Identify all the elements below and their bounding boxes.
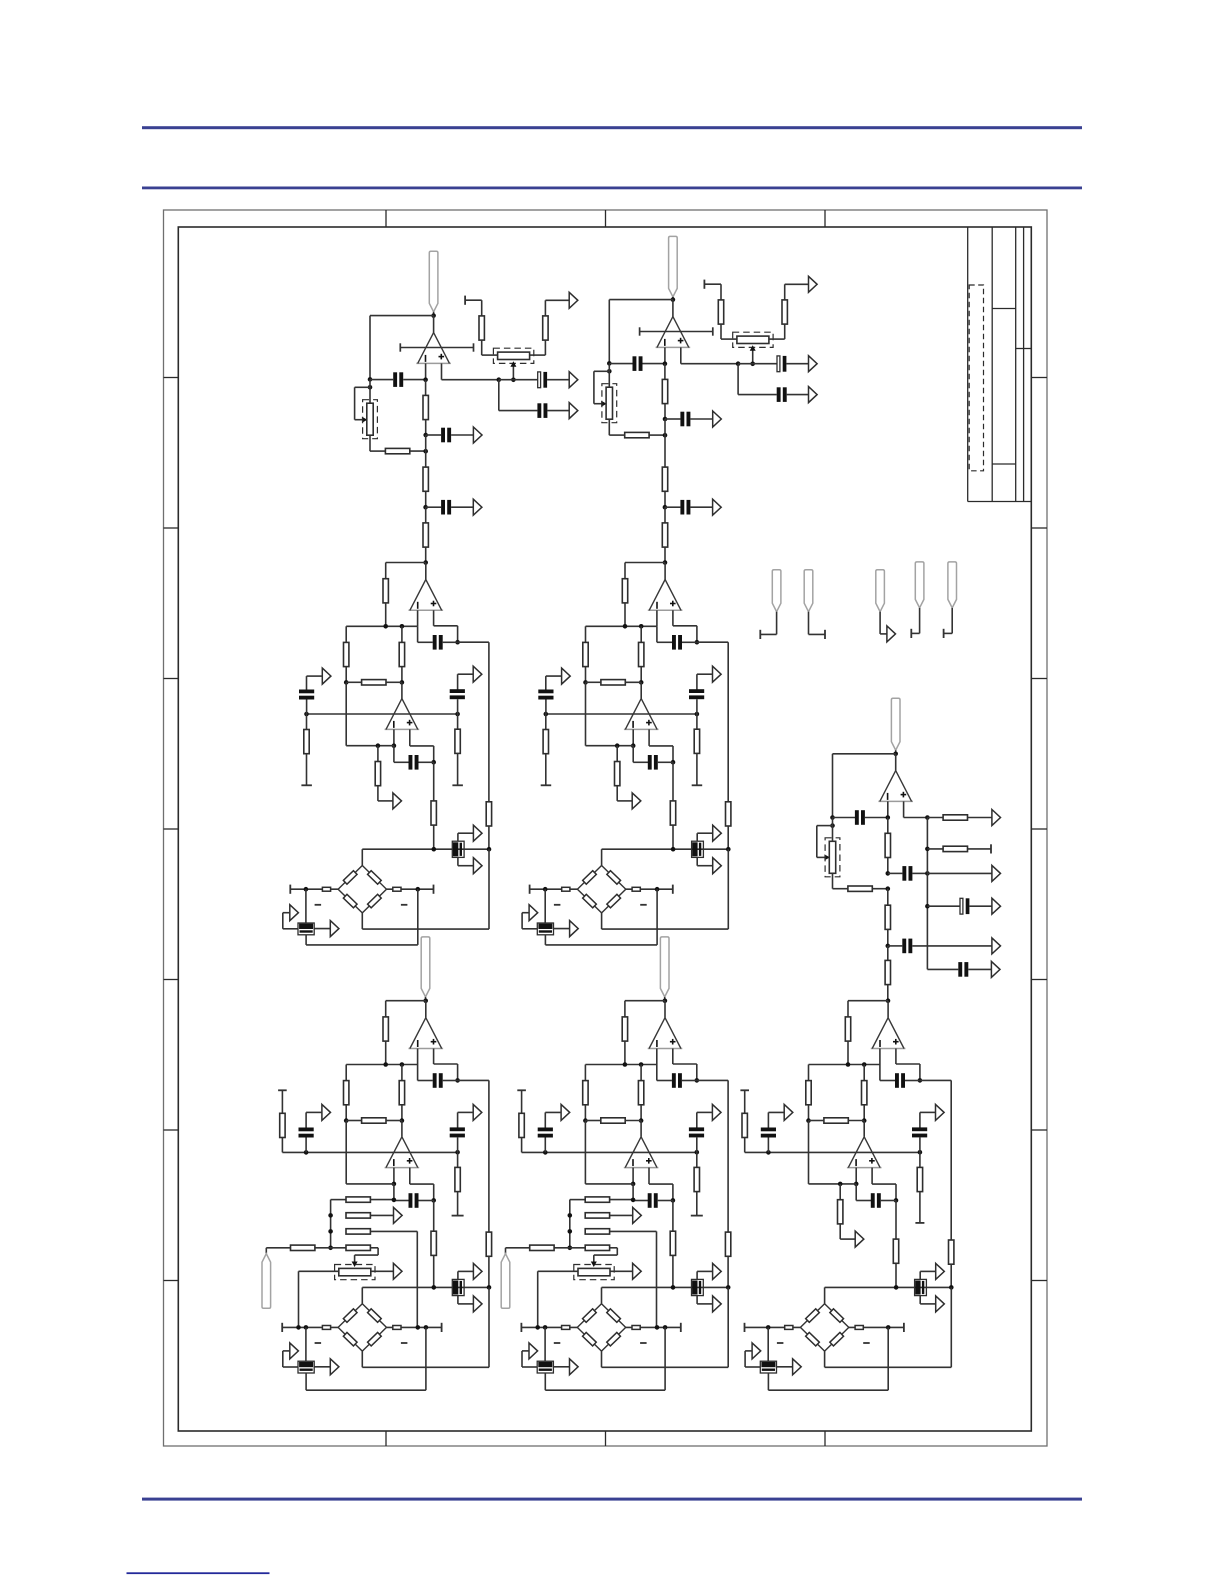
port EPT	[633, 1263, 642, 1279]
wire	[624, 1041, 626, 1064]
resistor AR5	[479, 316, 484, 340]
wiper arm ARV1	[355, 419, 364, 421]
node An4	[368, 385, 373, 390]
wire	[458, 865, 474, 867]
node Drd	[328, 1246, 333, 1251]
wire	[847, 1001, 849, 1017]
wire	[305, 1327, 307, 1361]
port AP5	[569, 403, 578, 419]
port AP7	[473, 666, 482, 682]
wire	[434, 1063, 458, 1065]
node Dm3	[400, 1062, 405, 1067]
wire	[696, 1137, 698, 1152]
wire	[609, 434, 624, 436]
wire top row	[825, 1286, 952, 1288]
node Am4	[455, 640, 460, 645]
resistor BR16	[694, 729, 699, 753]
wire	[664, 997, 666, 1001]
wire	[544, 1327, 546, 1361]
wire	[370, 450, 385, 452]
wire	[673, 625, 697, 627]
resistor BR12	[543, 730, 548, 754]
node Em10	[671, 1198, 676, 1203]
wire	[386, 1120, 402, 1122]
wire	[314, 928, 330, 930]
wire inverting input	[425, 363, 427, 379]
wire non-inv lead	[903, 801, 905, 817]
wire	[887, 818, 889, 834]
node Era	[631, 1198, 636, 1203]
wire right column	[656, 889, 658, 945]
terminal ET2	[691, 1215, 703, 1217]
input flag F2	[804, 570, 813, 612]
wire	[457, 1192, 459, 1216]
capacitor FC6	[895, 1073, 899, 1088]
wire node row right	[849, 1326, 904, 1328]
node Am2	[383, 624, 388, 629]
resistor AR16	[455, 729, 460, 753]
wire row C drop	[416, 1231, 418, 1327]
node Bn1	[671, 297, 676, 302]
node Em7	[543, 1150, 548, 1155]
wire	[355, 1254, 379, 1256]
wire bottom row	[768, 1389, 888, 1391]
wire	[879, 612, 881, 634]
node Am5	[344, 680, 349, 685]
resistor FR13	[838, 1200, 843, 1224]
wire	[920, 1111, 936, 1113]
port FPB1	[936, 1263, 945, 1279]
port EP8	[561, 1104, 570, 1120]
wire	[457, 674, 459, 690]
port DPB4	[330, 1359, 339, 1375]
wire	[919, 1192, 921, 1223]
wire inverting lead	[656, 1049, 658, 1065]
wire non-inv lead	[409, 1168, 411, 1185]
node Em3	[639, 1062, 644, 1067]
wire wiper link	[816, 826, 818, 858]
wire opamp out	[664, 563, 666, 580]
resistor CR3	[885, 905, 890, 929]
wire	[951, 608, 953, 634]
wire	[777, 1366, 793, 1368]
wire	[586, 681, 601, 683]
port DP8	[322, 1104, 331, 1120]
wire bottom row	[545, 944, 657, 946]
wire	[808, 612, 810, 635]
wire	[664, 547, 666, 562]
bridge ABR1	[338, 866, 386, 913]
node Bn5	[663, 433, 668, 438]
node Em9	[631, 1182, 636, 1187]
capacitor AC4 polarized	[538, 372, 541, 388]
wire	[847, 1041, 849, 1064]
wire power rail	[400, 347, 473, 349]
terminal DTB2	[441, 1323, 443, 1332]
wire	[682, 641, 697, 643]
capacitor BC4 polarized	[777, 356, 780, 372]
port AP4	[569, 372, 578, 388]
header rule 2	[142, 187, 1082, 190]
wire top row	[362, 1286, 489, 1288]
wire	[640, 626, 642, 642]
wire	[506, 1247, 530, 1249]
wire to bus	[697, 641, 728, 643]
terminal FT3	[740, 1089, 749, 1091]
wire inverting lead	[632, 729, 634, 745]
wire flag to node B	[672, 297, 674, 300]
wire inverting lead	[417, 610, 419, 626]
wire	[672, 1200, 674, 1231]
wire output row	[681, 363, 738, 365]
node An6	[423, 433, 428, 438]
wire	[299, 1270, 339, 1272]
wire	[601, 1351, 603, 1367]
capacitor FC7	[871, 1193, 875, 1208]
capacitor BC8	[689, 689, 704, 693]
input flag F1	[772, 570, 781, 612]
wire	[601, 1287, 603, 1303]
wire	[393, 1184, 395, 1201]
port AP1	[473, 427, 482, 443]
wire	[458, 1303, 474, 1305]
wire	[745, 1366, 760, 1368]
wire	[377, 786, 379, 801]
node Em1	[663, 998, 668, 1003]
node Bm9	[631, 743, 636, 748]
node Am8	[455, 712, 460, 717]
node Am3	[400, 624, 405, 629]
port APB1	[473, 825, 482, 841]
wire wiper link	[817, 825, 833, 827]
wire	[625, 681, 641, 683]
op-amp BU3	[624, 728, 659, 730]
node An9	[497, 377, 502, 382]
wire	[361, 913, 363, 929]
resistor BR6	[782, 300, 787, 324]
wire	[696, 858, 698, 866]
wire	[833, 888, 848, 890]
resistor DR9	[399, 1081, 404, 1105]
wire	[522, 912, 529, 914]
wire opamp out	[640, 1121, 642, 1137]
wire	[895, 750, 897, 754]
wire feedback top	[370, 315, 434, 317]
node An3	[423, 377, 428, 382]
resistor BR3	[662, 467, 667, 491]
wire power rail	[640, 331, 713, 333]
trimmer CRV1	[829, 841, 835, 873]
wire row	[585, 1183, 633, 1185]
wire	[545, 754, 547, 786]
wire	[401, 1065, 403, 1081]
border tick right 2	[1031, 527, 1047, 529]
polarity mark Fminus-right	[863, 1342, 870, 1344]
wire	[306, 1111, 322, 1113]
wire	[410, 745, 434, 747]
wire left column	[345, 1121, 347, 1184]
wire	[769, 338, 785, 340]
wire	[282, 913, 284, 929]
port FPB2	[936, 1296, 945, 1312]
wire opamp out	[401, 1121, 403, 1137]
border tick left 2	[164, 527, 179, 529]
wire bus	[488, 1287, 490, 1367]
wire	[457, 1296, 459, 1304]
port FP7	[936, 1104, 945, 1120]
wire	[425, 491, 427, 507]
wire	[664, 507, 666, 523]
capacitor BC9	[538, 690, 553, 694]
wire bus	[727, 1080, 729, 1232]
wire	[808, 1065, 810, 1081]
wire	[696, 833, 698, 841]
capacitor BC6	[672, 635, 676, 650]
wire	[457, 1064, 459, 1080]
wire non-inv lead	[672, 1049, 674, 1065]
wire node row left	[745, 1326, 801, 1328]
wire	[767, 1112, 769, 1127]
port BP3	[809, 276, 818, 292]
wire	[393, 746, 395, 763]
node Ab4	[416, 887, 421, 892]
wire	[434, 625, 458, 627]
wire	[696, 1271, 698, 1279]
wire	[401, 1105, 403, 1121]
port FP6	[855, 1231, 864, 1247]
wire	[616, 746, 618, 762]
terminal FTB2	[903, 1323, 905, 1332]
border tick right 1	[1031, 377, 1047, 379]
wire	[371, 1247, 379, 1249]
input flag F3	[876, 570, 885, 612]
wire	[521, 913, 523, 929]
node Fm7	[766, 1150, 771, 1155]
capacitor DC6	[433, 1073, 437, 1088]
capacitor DC7	[409, 1193, 413, 1208]
capacitor CC4	[902, 939, 906, 954]
node Fb3	[766, 1325, 771, 1330]
wire feedback top	[625, 562, 665, 564]
border tick bottom 2	[605, 1431, 607, 1446]
port EPB2	[713, 1296, 722, 1312]
wire node row right	[387, 888, 434, 890]
wire	[545, 714, 547, 730]
wire to bus	[458, 1079, 489, 1081]
polarity mark Aminus-left	[315, 904, 322, 906]
wire	[927, 872, 992, 874]
wire	[403, 379, 425, 381]
port DPB1	[473, 1263, 482, 1279]
wire	[306, 754, 308, 786]
wire	[305, 1112, 307, 1127]
wire	[608, 363, 610, 387]
port BPB3	[529, 905, 538, 921]
port BP5	[809, 387, 818, 403]
resistor BR9	[639, 642, 644, 666]
capacitor EC6	[672, 1073, 676, 1088]
capacitor BCB2 polarized	[537, 923, 553, 935]
node Db3	[304, 1325, 309, 1330]
border tick left 1	[164, 377, 179, 379]
wire inverting lead	[887, 801, 889, 817]
wire	[649, 745, 673, 747]
wire	[912, 945, 992, 947]
resistor DR16	[455, 1167, 460, 1191]
wire	[425, 507, 427, 523]
wire	[361, 1351, 363, 1367]
wire	[665, 418, 680, 420]
resistor CR1	[885, 833, 890, 857]
border tick top 1	[385, 210, 387, 227]
wire opamp out	[664, 1001, 666, 1018]
wire	[833, 817, 856, 819]
resistor ERC	[585, 1229, 609, 1234]
resistor BRB1	[562, 887, 570, 891]
wire bus	[488, 849, 490, 929]
wire right column	[425, 1327, 427, 1390]
node Bn4	[607, 369, 612, 374]
wire	[458, 832, 474, 834]
footnote rule	[127, 1572, 270, 1574]
wire	[433, 1184, 435, 1200]
port CP1	[992, 810, 1001, 826]
input flag EIN	[660, 937, 669, 997]
wire	[879, 1065, 881, 1081]
resistor DR12	[280, 1113, 285, 1137]
wire	[649, 1183, 673, 1185]
wire output row	[442, 379, 499, 381]
wire node row	[586, 625, 657, 627]
wire	[265, 1248, 267, 1254]
node Bm3	[639, 624, 644, 629]
wire	[881, 1200, 896, 1202]
terminal BT2	[692, 784, 703, 786]
resistor ERB1	[562, 1326, 570, 1330]
wire trimmer drop	[298, 1271, 300, 1327]
wire	[888, 945, 903, 947]
node Em2	[623, 1062, 628, 1067]
node Am10	[431, 760, 436, 765]
resistor AR6	[543, 316, 548, 340]
port F3P	[887, 626, 896, 642]
capacitor DC8	[450, 1127, 465, 1131]
capacitor FCB1 polarized	[915, 1279, 927, 1295]
capacitor AC7	[409, 755, 413, 770]
border tick top 3	[824, 210, 826, 227]
wire node row right	[387, 1326, 442, 1328]
wire	[905, 1080, 920, 1082]
resistor ER12	[519, 1113, 524, 1137]
wire wiper link top	[594, 370, 609, 372]
footer rule	[142, 1498, 1082, 1501]
wire	[361, 1287, 363, 1303]
wire	[632, 1184, 634, 1201]
resistor FR8	[949, 1240, 954, 1264]
wire	[968, 968, 991, 970]
resistor DR11	[362, 1118, 386, 1123]
wire	[649, 434, 665, 436]
resistor FR10	[806, 1081, 811, 1105]
wire	[617, 800, 632, 802]
wire	[697, 865, 713, 867]
wiper arm ARV2	[512, 365, 514, 380]
wire	[927, 968, 958, 970]
wire	[696, 753, 698, 785]
resistor BR5	[718, 300, 723, 324]
wire	[499, 410, 538, 412]
wire	[433, 1200, 435, 1231]
wire	[672, 1255, 674, 1287]
wire bus	[488, 642, 490, 802]
wire	[927, 905, 960, 907]
wire opamp output	[433, 316, 435, 333]
node Cn3	[886, 815, 891, 820]
wire row D	[554, 1247, 585, 1249]
wire non-inverting input	[441, 363, 443, 379]
terminal BT3	[541, 784, 552, 786]
input flag EINB	[501, 1254, 510, 1309]
capacitor ECB2 polarized	[537, 1361, 553, 1373]
wiper arm ERVB	[593, 1255, 595, 1263]
wire	[345, 1065, 347, 1081]
wire	[425, 380, 427, 396]
resistor BR7	[622, 579, 627, 603]
capacitor ACB1 polarized	[452, 841, 464, 857]
node Fm10	[894, 1198, 899, 1203]
wire feedback left	[608, 300, 610, 364]
capacitor DCB2 polarized	[298, 1361, 314, 1373]
wire feedback left	[832, 754, 834, 818]
wire	[824, 1351, 826, 1367]
node Erc	[568, 1229, 573, 1234]
wire	[433, 825, 435, 849]
resistor CR5	[943, 815, 967, 820]
wire	[283, 912, 290, 914]
wire row	[586, 745, 634, 747]
node Dm6	[400, 1118, 405, 1123]
resistor AR4	[423, 523, 428, 547]
wire	[840, 1238, 855, 1240]
resistor ER7	[622, 1017, 627, 1041]
wire	[657, 641, 672, 643]
capacitor BCB1 polarized	[692, 841, 704, 857]
wire	[672, 762, 674, 801]
wire	[919, 1296, 921, 1304]
wire inverting lead	[855, 1168, 857, 1184]
wire bus	[950, 1080, 952, 1240]
wire	[305, 889, 307, 923]
wire	[385, 603, 387, 626]
op-amp DU3	[385, 1167, 420, 1169]
wire input row	[745, 1151, 920, 1153]
node Cn10	[925, 847, 930, 852]
wire	[369, 379, 371, 403]
port BP7	[713, 666, 722, 682]
wire	[585, 667, 587, 683]
wire row	[809, 1183, 857, 1185]
node Bm4	[695, 640, 700, 645]
port EP7	[712, 1104, 721, 1120]
wire	[968, 848, 992, 850]
wire	[786, 363, 808, 365]
wire	[610, 1247, 618, 1249]
wire	[547, 410, 569, 412]
capacitor DCB1 polarized	[452, 1279, 464, 1295]
bridge DBR1	[338, 1304, 386, 1351]
port BP2	[713, 499, 722, 515]
wire	[785, 283, 809, 285]
